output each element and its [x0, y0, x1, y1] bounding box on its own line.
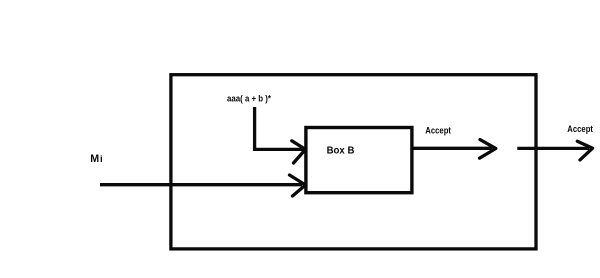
box B: [306, 128, 412, 193]
outer system box: [171, 75, 536, 249]
svg-text:Mi: Mi: [90, 153, 102, 165]
wire regex input elbow: [255, 107, 303, 149]
wire accept output: [414, 147, 493, 150]
svg-text:Accept: Accept: [567, 124, 593, 135]
wire final accept: [517, 147, 589, 150]
svg-text:Accept: Accept: [425, 126, 451, 137]
arrowhead Mi input: [290, 175, 306, 196]
arrowhead accept output: [480, 140, 496, 159]
arrowhead regex input: [292, 141, 306, 163]
arrowhead final accept: [577, 141, 592, 160]
svg-text:aaa( a + b )*: aaa( a + b )*: [227, 94, 271, 105]
svg-text:Box B: Box B: [327, 145, 355, 157]
wire Mi input: [100, 183, 302, 186]
